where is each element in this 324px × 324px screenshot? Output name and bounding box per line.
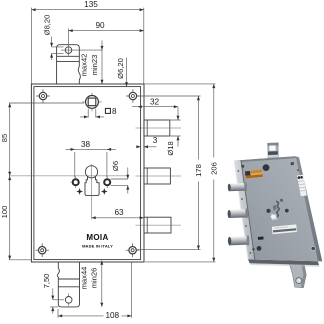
dia 18 extension lines bbox=[170, 120, 180, 136]
svg-text:Ø6,20: Ø6,20 bbox=[116, 58, 125, 79]
dia 6.20 arrow bbox=[125, 82, 128, 86]
star mark right bbox=[101, 188, 108, 195]
svg-text:Ø8,20: Ø8,20 bbox=[43, 15, 52, 36]
bottom latch hole bbox=[65, 297, 72, 304]
photo body right side face bbox=[295, 156, 322, 261]
svg-text:108: 108 bbox=[105, 311, 119, 320]
dim 38 extension lines bbox=[75, 152, 107, 178]
206 arrows bbox=[212, 84, 215, 88]
svg-text:100: 100 bbox=[0, 206, 9, 219]
bolt 1 bbox=[144, 120, 170, 136]
dim 90 line bbox=[69, 30, 144, 32]
top latch plate bbox=[57, 45, 80, 84]
dim 135 line bbox=[31, 9, 143, 11]
bottom latch plate bbox=[58, 262, 79, 307]
svg-text:Ø6: Ø6 bbox=[111, 161, 120, 171]
svg-text:206: 206 bbox=[209, 162, 218, 175]
svg-text:7,50: 7,50 bbox=[42, 274, 51, 289]
svg-text:8: 8 bbox=[112, 107, 117, 116]
dim 108 extension lines bbox=[58, 263, 132, 318]
svg-text:32: 32 bbox=[150, 97, 160, 106]
photo bolt A bbox=[228, 182, 247, 191]
svg-text:min26: min26 bbox=[90, 268, 99, 289]
svg-text:90: 90 bbox=[95, 21, 105, 30]
90 arrows bbox=[69, 29, 73, 32]
photo top-right notch bbox=[291, 162, 295, 165]
corner screw bottom-right bbox=[126, 243, 140, 257]
cylinder screw right bbox=[104, 176, 110, 188]
max44/min26 dimension line bbox=[101, 261, 103, 307]
svg-text:3: 3 bbox=[153, 136, 158, 145]
svg-text:135: 135 bbox=[84, 0, 98, 9]
lock body outer plate bbox=[31, 84, 144, 262]
svg-text:MOIA: MOIA bbox=[86, 233, 108, 242]
top latch hole bbox=[65, 47, 72, 54]
photo central mechanism bbox=[266, 199, 289, 222]
svg-text:min23: min23 bbox=[90, 55, 99, 76]
keyhole vertical centerline bbox=[91, 164, 93, 219]
svg-text:Ø18: Ø18 bbox=[166, 141, 175, 155]
dim 32 line bbox=[132, 106, 178, 108]
photo hole top large bbox=[263, 164, 270, 171]
cylinder screw left bbox=[71, 176, 79, 188]
svg-text:178: 178 bbox=[194, 164, 203, 177]
85 arrows bbox=[8, 103, 11, 107]
photo bottom-right screw bbox=[311, 246, 315, 250]
dim 135 extension lines bbox=[31, 8, 143, 84]
max42 arrows (both down) bbox=[101, 46, 104, 50]
dim 206 extension lines bbox=[144, 84, 216, 262]
spindle square hole bbox=[82, 93, 101, 112]
dia 18 arrows bbox=[177, 116, 180, 120]
32 arrows bbox=[138, 105, 142, 108]
135 arrows bbox=[31, 8, 35, 11]
bottom latch cross lines bbox=[58, 279, 79, 287]
dia 6.20 leader line bbox=[126, 58, 128, 87]
photo slot bbox=[258, 237, 264, 240]
7.50 arrows bbox=[51, 296, 54, 300]
dia 8.20 arrows bbox=[50, 43, 53, 47]
star mark left bbox=[76, 188, 83, 195]
dia 6 arrows bbox=[126, 175, 129, 179]
dim 63 line bbox=[92, 217, 144, 219]
square 8 arrows bbox=[84, 115, 88, 118]
photo bolt C bbox=[228, 236, 250, 247]
photo faceplate strip bbox=[234, 160, 255, 259]
dia 6 dimension bbox=[111, 179, 128, 185]
dim 100 line bbox=[9, 176, 11, 260]
38 arrows (outside) bbox=[71, 148, 75, 151]
photo orange label bbox=[245, 169, 263, 178]
photo top bracket bbox=[267, 143, 278, 159]
dim 206 line (interrupted by text) bbox=[213, 84, 215, 262]
max42/min23 dimension line bbox=[101, 41, 103, 85]
63 arrows bbox=[92, 216, 96, 219]
dim 85 line bbox=[9, 103, 11, 176]
dia 18 dimension line bbox=[177, 107, 179, 147]
svg-text:85: 85 bbox=[0, 134, 9, 142]
bolt 3 bbox=[144, 217, 171, 233]
corner screw top-right bbox=[126, 89, 140, 103]
square 8 extension lines bbox=[88, 109, 96, 118]
dia 8.20 dimension line bbox=[51, 37, 53, 61]
dim 108 line (interrupted by text) bbox=[58, 315, 132, 317]
dim 90 left extension / latch hole centerline bbox=[68, 29, 70, 57]
svg-text:38: 38 bbox=[81, 140, 91, 149]
top latch break squiggle bbox=[78, 67, 80, 85]
100 arrows bbox=[8, 176, 11, 180]
photo body front face bbox=[234, 156, 318, 261]
keyhole stem bbox=[85, 176, 99, 195]
photo white side label bbox=[297, 169, 307, 196]
photo white made-in label bbox=[272, 224, 297, 234]
svg-text:max42: max42 bbox=[80, 54, 89, 77]
dim 7.50 dimension line bbox=[52, 289, 54, 314]
photo bolt B bbox=[227, 209, 248, 219]
108 arrows bbox=[58, 314, 62, 317]
lock body inner line bbox=[34, 87, 141, 260]
photo small holes bottom-left bbox=[252, 248, 254, 250]
svg-text:63: 63 bbox=[114, 208, 124, 217]
dim 3 line bbox=[136, 146, 156, 148]
photo bottom bracket bbox=[289, 262, 306, 288]
dim 100 bottom extension bbox=[9, 259, 31, 261]
bolt 2 bbox=[144, 168, 171, 184]
dim 178 extension lines bbox=[137, 96, 201, 250]
3 arrows bbox=[136, 145, 140, 148]
dim 85 extension at spindle bbox=[9, 102, 84, 104]
dim 178 line (interrupted by text) bbox=[197, 96, 199, 250]
photo top edge bevel bbox=[234, 156, 296, 162]
keyhole head bbox=[85, 166, 97, 178]
top latch cross lines bbox=[57, 56, 80, 61]
178 arrows bbox=[197, 96, 200, 100]
svg-text:max44: max44 bbox=[79, 267, 88, 290]
bottom latch break squiggle bbox=[57, 268, 59, 277]
keyhole horizontal centerline bbox=[9, 175, 128, 177]
text square 8 bbox=[105, 108, 110, 113]
svg-text:MADE IN ITALY: MADE IN ITALY bbox=[82, 244, 113, 249]
corner screw bottom-left bbox=[35, 243, 49, 257]
max44 arrows bbox=[100, 261, 103, 265]
dim 38 line bbox=[66, 148, 117, 150]
photo faceplate screws bbox=[237, 170, 239, 172]
corner screw top-left bbox=[36, 89, 50, 103]
photo hole top small bbox=[241, 165, 244, 168]
photo body bottom side face bbox=[248, 259, 319, 265]
latch hole horizontal centerline + max42 extension bbox=[61, 49, 102, 51]
